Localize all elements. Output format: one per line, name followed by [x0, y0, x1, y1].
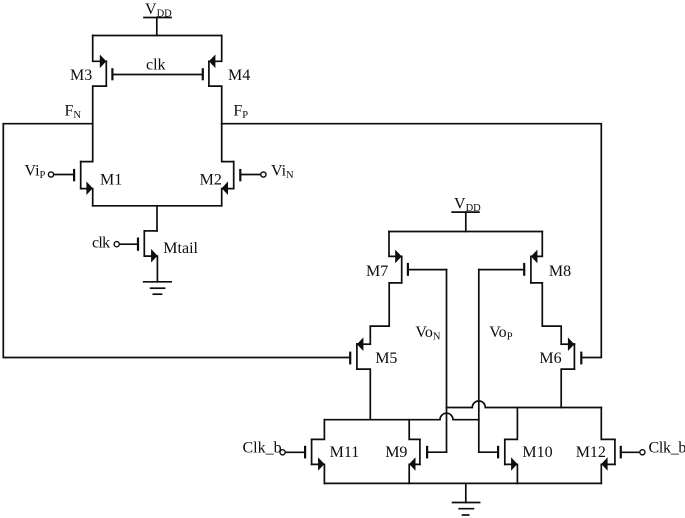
svg-text:M9: M9 — [385, 444, 407, 461]
node VoN vertical wire — [446, 270, 448, 453]
input clk (Mtail) — [92, 235, 138, 252]
wire tail stem — [156, 206, 158, 231]
transistor M6 — [561, 337, 581, 407]
wire F_P to M6 gate — [222, 124, 602, 358]
input Clk_b (left) — [243, 440, 306, 457]
svg-text:M1: M1 — [100, 172, 122, 189]
ground (tail) — [144, 282, 172, 294]
input Vi_N — [240, 163, 294, 181]
transistor M5 — [350, 337, 370, 419]
svg-text:M5: M5 — [375, 350, 397, 367]
svg-text:M6: M6 — [539, 350, 561, 367]
svg-text:clk: clk — [146, 57, 166, 74]
wire drain node right with hop over VoP — [447, 401, 602, 407]
svg-text:M7: M7 — [366, 263, 388, 280]
wire drain node left with hop over VoN — [324, 413, 478, 419]
wire tail node — [93, 205, 222, 207]
svg-text:M3: M3 — [70, 67, 92, 84]
svg-text:M11: M11 — [330, 444, 360, 461]
svg-text:M4: M4 — [228, 67, 250, 84]
input Vi_P — [25, 163, 75, 181]
transistor M3 — [93, 36, 113, 124]
svg-text:ViN: ViN — [271, 163, 294, 181]
svg-text:ViP: ViP — [25, 163, 46, 181]
wire VDD rail (latch) — [389, 231, 542, 233]
transistor M9 — [409, 420, 446, 484]
transistor M8 — [524, 232, 561, 345]
transistor Mtail — [138, 231, 157, 282]
svg-text:VDD: VDD — [145, 1, 172, 19]
wire M8 gate to node VoP — [479, 269, 524, 271]
svg-text:VoP: VoP — [489, 324, 513, 342]
svg-text:M10: M10 — [522, 444, 552, 461]
svg-text:M12: M12 — [576, 444, 606, 461]
svg-text:Mtail: Mtail — [163, 240, 198, 257]
wire F_N to M5 gate — [3, 124, 350, 358]
transistor M4 — [203, 36, 222, 124]
svg-text:VoN: VoN — [415, 324, 441, 342]
power VDD (top) — [144, 1, 172, 36]
svg-text:M2: M2 — [200, 172, 222, 189]
ground (latch) — [453, 503, 480, 516]
svg-text:Clk_b: Clk_b — [649, 440, 685, 457]
svg-text:VDD: VDD — [454, 196, 481, 214]
power VDD (latch) — [452, 196, 481, 232]
transistor M10 — [479, 408, 518, 484]
transistor M11 — [305, 420, 324, 484]
svg-text:FP: FP — [233, 103, 248, 121]
node VoP vertical wire — [478, 270, 480, 453]
svg-text:Clk_b: Clk_b — [243, 440, 282, 457]
svg-text:M8: M8 — [549, 263, 571, 280]
wire source rail (latch) — [324, 482, 601, 484]
wire clk gates M3-M4 — [112, 74, 202, 76]
wire VDD rail (top) — [93, 35, 222, 37]
wire ground stem (latch) — [465, 483, 467, 502]
wire M7 gate to node VoN — [408, 269, 447, 271]
transistor M1 — [74, 124, 93, 206]
transistor M12 — [601, 408, 639, 484]
transistor M7 — [370, 232, 408, 345]
input Clk_b (right) — [640, 440, 685, 457]
svg-text:clk: clk — [92, 235, 110, 252]
svg-text:FN: FN — [65, 103, 82, 121]
transistor M2 — [222, 124, 241, 206]
